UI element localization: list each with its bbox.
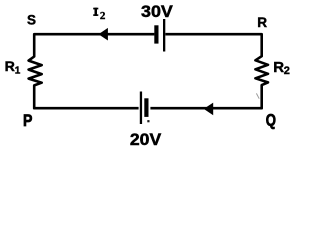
svg-text:S: S: [27, 13, 36, 28]
svg-text:2: 2: [100, 10, 106, 22]
svg-text:Q: Q: [266, 111, 276, 130]
svg-text:P: P: [23, 111, 32, 130]
svg-text:20V: 20V: [130, 130, 162, 149]
svg-text:1: 1: [15, 65, 21, 76]
svg-text:R: R: [257, 15, 267, 30]
svg-text:30V: 30V: [141, 2, 173, 21]
svg-text:2: 2: [284, 65, 290, 77]
svg-text:R: R: [5, 59, 15, 75]
svg-text:R: R: [273, 59, 284, 76]
